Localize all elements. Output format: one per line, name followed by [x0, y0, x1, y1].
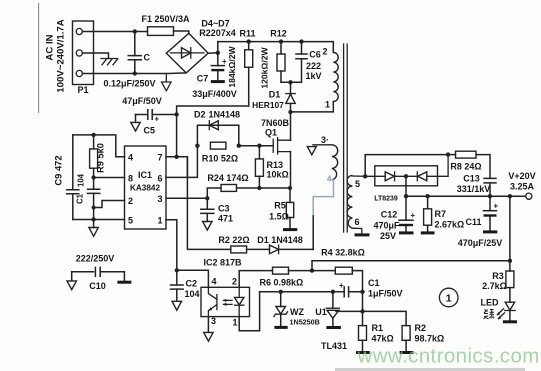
wire pin8 — [94, 177, 125, 179]
output terminal — [526, 193, 532, 199]
svg-text:D2: D2 — [194, 110, 206, 120]
svg-text:1N4148: 1N4148 — [209, 110, 241, 120]
ground C5 — [131, 115, 140, 132]
svg-text:1: 1 — [158, 216, 163, 226]
svg-text:5: 5 — [128, 216, 133, 226]
svg-text:3.25A: 3.25A — [510, 182, 535, 192]
node bridge+ — [216, 51, 220, 55]
shunt regulator U1 TL431 — [326, 292, 341, 328]
capacitor C11 — [483, 196, 499, 232]
rectifier LT8239 box — [365, 155, 448, 186]
fuse F1 — [148, 27, 189, 36]
svg-text:471: 471 — [218, 214, 233, 224]
wire AC line top — [82, 31, 147, 33]
svg-text:R2 22Ω: R2 22Ω — [218, 235, 249, 245]
wire pin4 — [73, 135, 125, 157]
node R9 top — [91, 133, 95, 137]
svg-text:R13: R13 — [267, 160, 284, 170]
wire pin6 — [166, 146, 197, 178]
transformer T1 — [291, 53, 339, 112]
svg-text:R24 174Ω: R24 174Ω — [207, 173, 248, 183]
ground opto pin3 — [204, 317, 213, 342]
node R11 top — [247, 39, 251, 43]
wire opto pin2 to R6 — [239, 271, 272, 288]
svg-text:7N60B: 7N60B — [261, 118, 290, 128]
wire VCC riser — [177, 106, 249, 157]
wire snubber top line — [365, 155, 455, 177]
svg-text:104: 104 — [77, 173, 86, 187]
LED indicator — [497, 302, 517, 322]
svg-text:C2: C2 — [186, 279, 198, 289]
ground primary under IC — [89, 220, 98, 237]
node ground line — [91, 217, 95, 221]
transformer core — [344, 44, 348, 232]
wire AC earth middle — [82, 53, 108, 59]
node COMP junction — [175, 268, 179, 272]
node ref — [360, 309, 364, 313]
capacitor C — [128, 32, 141, 74]
node pin3 — [205, 196, 209, 200]
capacitor C2 — [171, 270, 184, 301]
svg-text:F1 250V/3A: F1 250V/3A — [141, 14, 190, 24]
svg-text:R8 24Ω: R8 24Ω — [450, 162, 481, 172]
circled 1 — [439, 288, 458, 307]
resistor R2 220 — [231, 246, 270, 253]
svg-text:3: 3 — [211, 316, 216, 326]
resistor R24 — [207, 185, 290, 199]
capacitor C6 — [296, 42, 307, 83]
node U1 — [331, 290, 335, 294]
wire cathode line — [260, 291, 363, 293]
node C5 tap — [174, 112, 178, 116]
svg-text:331/1kV: 331/1kV — [457, 184, 491, 194]
svg-text:C3: C3 — [218, 204, 230, 214]
wire R3 column — [509, 196, 511, 271]
svg-text:C1: C1 — [368, 278, 380, 288]
svg-text:2: 2 — [232, 277, 237, 287]
wire output line — [406, 195, 526, 197]
svg-text:1N5250B: 1N5250B — [290, 318, 320, 327]
node R12 top — [279, 39, 283, 43]
wire pin7 VCC — [125, 157, 188, 178]
svg-text:1μF/50V: 1μF/50V — [368, 289, 403, 299]
node C12 — [404, 194, 408, 198]
node R6 R4 — [310, 268, 314, 272]
svg-text:25V: 25V — [380, 231, 396, 241]
wire VCC aux feed vertical — [187, 157, 230, 250]
svg-text:IC2 817B: IC2 817B — [203, 258, 242, 268]
resistor R1 — [356, 326, 370, 353]
svg-text:R1: R1 — [372, 323, 384, 333]
svg-text:1: 1 — [233, 318, 238, 328]
capacitor C13 — [484, 178, 496, 196]
svg-text:C10: C10 — [89, 281, 106, 291]
capacitor C5 — [136, 110, 177, 124]
capacitor C3 — [201, 198, 214, 221]
label green char — [484, 310, 495, 319]
node sense join — [508, 259, 512, 263]
svg-text:C1: C1 — [76, 193, 85, 204]
wire pin2 — [94, 201, 125, 208]
node WZ — [279, 290, 283, 294]
svg-text:D1: D1 — [269, 90, 281, 100]
svg-text:C5: C5 — [144, 126, 156, 136]
secondary winding pin5 pin6 — [347, 175, 369, 235]
svg-text:33μF/400V: 33μF/400V — [192, 89, 237, 99]
svg-text:6: 6 — [354, 217, 359, 227]
optocoupler IC2 817B — [201, 287, 250, 316]
svg-text:R6 0.98kΩ: R6 0.98kΩ — [260, 278, 304, 288]
resistor R5 — [283, 188, 297, 230]
capacitor C12 — [399, 196, 416, 233]
node pin8 — [91, 175, 95, 179]
svg-text:R11: R11 — [239, 29, 255, 39]
capacitor C1 104 — [88, 178, 100, 220]
zener WZ 1N5250B — [274, 292, 288, 328]
svg-text:KA3842: KA3842 — [130, 184, 160, 193]
svg-text:222: 222 — [306, 61, 321, 71]
node C11 — [488, 194, 492, 198]
svg-text:C7: C7 — [197, 74, 209, 84]
bottom scan smudge — [335, 368, 525, 371]
svg-text:6: 6 — [158, 174, 163, 184]
svg-text:1.5Ω: 1.5Ω — [269, 212, 289, 222]
svg-text:U1: U1 — [315, 307, 327, 317]
svg-text:470μF: 470μF — [373, 221, 400, 231]
svg-text:LED: LED — [481, 298, 500, 308]
resistor R11 — [245, 42, 253, 106]
svg-text:+: + — [339, 281, 344, 290]
svg-text:TL431: TL431 — [321, 341, 347, 351]
svg-text:0.12μF/250V: 0.12μF/250V — [103, 79, 155, 89]
capacitor C10 — [67, 267, 131, 289]
svg-text:+: + — [155, 115, 160, 124]
svg-text:+: + — [411, 211, 416, 220]
ground C2 — [172, 301, 181, 310]
resistor R4 — [335, 267, 362, 292]
svg-text:4: 4 — [128, 153, 133, 163]
svg-text:R10 52Ω: R10 52Ω — [202, 154, 238, 164]
node pin7 C5 — [174, 155, 178, 159]
svg-text:1kV: 1kV — [305, 71, 321, 81]
node junction top C — [133, 29, 137, 33]
ground below bridge — [162, 74, 172, 91]
node C1 R4 join — [360, 290, 364, 294]
svg-text:470μF/25V: 470μF/25V — [458, 238, 503, 248]
primary winding pin2-pin1 — [333, 53, 338, 102]
svg-text:IC1: IC1 — [138, 170, 152, 180]
wire aux pin4 — [313, 180, 333, 249]
svg-text:R2: R2 — [415, 323, 427, 333]
wire ref node — [336, 292, 406, 326]
svg-text:WZ: WZ — [290, 307, 304, 317]
svg-text:R3: R3 — [492, 271, 504, 281]
svg-text:R7: R7 — [435, 209, 447, 219]
ground C3 — [203, 222, 212, 231]
diode D1 1N4148 bottom — [270, 245, 314, 254]
svg-text:P1: P1 — [77, 85, 88, 95]
svg-text:10kΩ: 10kΩ — [267, 170, 289, 180]
svg-text:D1 1N4148: D1 1N4148 — [257, 235, 303, 245]
node pin2 join — [92, 206, 96, 210]
svg-text:3·: 3· — [321, 135, 329, 145]
svg-text:100V~240V/1.7A: 100V~240V/1.7A — [56, 19, 67, 92]
svg-text:C12: C12 — [381, 210, 398, 220]
node rectifier cathode — [404, 174, 408, 178]
node junction bottom C — [133, 71, 137, 75]
bridge rectifier D4~D7 — [166, 33, 208, 73]
wire drain column — [290, 112, 292, 140]
diode D2 1N4148 — [197, 121, 238, 146]
wire bridge+ to bus — [208, 42, 218, 54]
svg-text:7: 7 — [158, 153, 163, 163]
svg-text:2.7kΩ: 2.7kΩ — [482, 281, 507, 291]
node gate net right — [237, 144, 241, 148]
svg-text:R12: R12 — [270, 29, 287, 39]
svg-text:104: 104 — [185, 289, 200, 299]
svg-text:4: 4 — [212, 277, 217, 287]
svg-text:2.67kΩ: 2.67kΩ — [435, 220, 465, 230]
node gate net left — [195, 144, 199, 148]
capacitor C9 left branch — [67, 135, 79, 220]
aux winding pin3 — [313, 145, 338, 180]
svg-text:184kΩ/2W: 184kΩ/2W — [227, 45, 237, 87]
svg-text:2: 2 — [322, 47, 327, 57]
svg-text:5: 5 — [355, 179, 360, 189]
svg-text:C9 472: C9 472 — [53, 155, 64, 185]
svg-text:4: 4 — [327, 175, 332, 184]
svg-text:1: 1 — [325, 100, 330, 110]
wire pin3 — [166, 197, 207, 199]
IC U1 KA3842 — [125, 146, 167, 229]
svg-text:AC IN: AC IN — [45, 34, 56, 60]
svg-text:C11: C11 — [465, 217, 481, 227]
svg-text:47μF/50V: 47μF/50V — [122, 96, 162, 106]
wire pin5 ground line — [73, 219, 125, 221]
svg-text:222/250V: 222/250V — [76, 254, 115, 264]
resistor R13 — [255, 144, 263, 189]
node pin5 — [363, 174, 367, 178]
wire opto pin1 loop — [239, 292, 259, 331]
resistor R7 — [421, 196, 435, 233]
resistor R6 — [273, 267, 336, 274]
frame border left — [38, 3, 40, 113]
resistor R3 — [506, 271, 514, 302]
node C6 top — [299, 39, 303, 43]
svg-text:HER107: HER107 — [252, 100, 284, 110]
capacitor C1 comp — [339, 281, 349, 297]
resistor R12 — [277, 42, 302, 83]
node source R5 — [288, 186, 292, 190]
resistor R8 — [456, 151, 491, 178]
svg-text:2: 2 — [128, 196, 133, 206]
svg-text:47kΩ: 47kΩ — [372, 334, 394, 344]
svg-text:8: 8 — [128, 174, 133, 184]
diode D1 HER107 — [286, 82, 295, 112]
node drain junction — [288, 110, 292, 114]
wire sense line — [312, 261, 510, 271]
capacitor C7 — [211, 53, 227, 82]
svg-text:R9 5k0: R9 5k0 — [96, 143, 106, 173]
svg-text:C13: C13 — [463, 173, 480, 183]
resistor R9 — [90, 135, 98, 178]
svg-text:98.7kΩ: 98.7kΩ — [415, 334, 445, 344]
ground arrow aux — [307, 147, 316, 155]
resistor R2 98.7k — [400, 326, 414, 353]
svg-text:+: + — [494, 202, 499, 211]
wire HV bus — [218, 42, 333, 53]
resistor R10 — [210, 142, 226, 149]
earth ground chassis — [101, 59, 118, 65]
svg-text:R5: R5 — [274, 201, 286, 211]
svg-text:120kΩ/2W: 120kΩ/2W — [260, 46, 270, 88]
svg-text:Q1: Q1 — [265, 128, 277, 138]
svg-text:R2207x4: R2207x4 — [199, 28, 236, 38]
wire to opto pin4 — [177, 270, 209, 287]
MOSFET Q1 — [239, 138, 291, 188]
svg-text:LT8239: LT8239 — [374, 196, 398, 203]
svg-text:1: 1 — [446, 293, 452, 305]
wire AC line bottom — [82, 72, 186, 75]
node R8 left — [446, 152, 450, 156]
wire pin1 — [166, 220, 177, 270]
svg-text:V+20V: V+20V — [508, 171, 535, 181]
node R3 top — [508, 194, 512, 198]
svg-text:3: 3 — [158, 194, 163, 204]
node R13 bottom — [257, 186, 261, 190]
connector P1 — [73, 21, 94, 85]
node R7 — [425, 194, 429, 198]
svg-text:C6: C6 — [309, 50, 321, 60]
svg-text:R4 32.8kΩ: R4 32.8kΩ — [321, 248, 365, 258]
node snubber bottom — [288, 80, 292, 84]
svg-text:C: C — [144, 53, 151, 63]
wire cathode down — [405, 176, 407, 196]
svg-text:www.cntronics.com: www.cntronics.com — [357, 345, 540, 368]
